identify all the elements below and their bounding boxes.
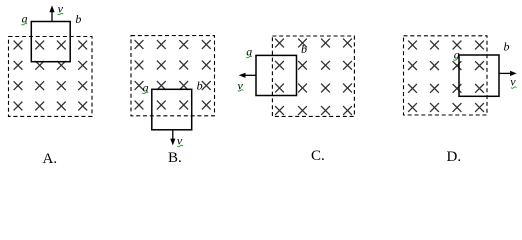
svg-text:b: b [75, 12, 81, 26]
field region A (dashed boundary) [9, 37, 93, 117]
velocity arrow A (upward) [49, 5, 54, 21]
field region D (dashed boundary) [404, 36, 488, 115]
conducting loop D [459, 55, 499, 96]
svg-text:v: v [510, 75, 516, 89]
svg-text:b: b [301, 42, 307, 56]
grammar wavy underline under a (panel C) [246, 56, 252, 58]
grammar wavy underline under v (panel B) [177, 145, 183, 147]
grammar wavy underline under v (panel A) [58, 13, 64, 15]
field region C (dashed boundary) [272, 36, 354, 116]
svg-text:C.: C. [311, 148, 325, 164]
conducting loop B [152, 89, 192, 130]
magnetic field crosses B [135, 40, 211, 109]
svg-text:D.: D. [447, 149, 462, 165]
grammar wavy underline under a (panel D) [453, 59, 459, 61]
svg-text:B.: B. [168, 150, 182, 166]
field region B (dashed boundary) [131, 36, 215, 116]
grammar wavy underline under v (panel D) [511, 87, 517, 89]
magnetic field crosses C [275, 39, 352, 115]
magnetic field crosses A [14, 41, 88, 111]
velocity arrow C (leftward) [239, 73, 256, 78]
velocity arrow D (rightward) [499, 71, 517, 76]
grammar wavy underline under a (panel B) [142, 92, 148, 94]
conducting loop A [31, 22, 70, 62]
grammar wavy underline under a (panel A) [22, 23, 28, 25]
grammar wavy underline under v (panel C) [238, 90, 244, 92]
velocity arrow B (downward) [170, 130, 175, 146]
svg-text:b: b [197, 79, 203, 93]
svg-text:b: b [504, 40, 510, 54]
magnetic field crosses D [408, 41, 484, 112]
conducting loop C [256, 55, 297, 95]
svg-text:A.: A. [43, 151, 58, 167]
